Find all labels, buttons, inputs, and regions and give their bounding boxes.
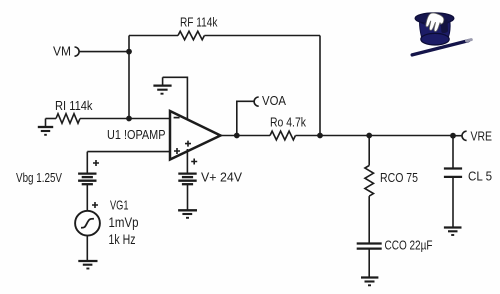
wire RCO branch upper (368, 136, 370, 166)
svg-text:RCO 75: RCO 75 (380, 170, 418, 185)
resistor RCO zigzag (365, 166, 374, 197)
resistor RI1 zigzag (56, 114, 80, 124)
op-amp U1 triangle (170, 111, 221, 160)
label VOA (262, 93, 286, 108)
svg-text:RF 114k: RF 114k (180, 14, 218, 29)
wire CCO to ground (368, 249, 370, 278)
battery V2 (V+) (178, 174, 196, 185)
logo magician hat (415, 13, 454, 45)
terminal VRE (462, 131, 467, 140)
ground G1 (at RI) (38, 119, 53, 135)
wire ground to op-amp top pin (163, 77, 188, 121)
ground G6 (VG1) (78, 261, 97, 269)
label U1 !OPAMP (107, 127, 166, 142)
svg-text:VRE: VRE (471, 129, 493, 144)
wire CL branch upper (452, 136, 454, 169)
wire left vertical (feedback to inverting node) (128, 36, 130, 119)
junction CL node (450, 133, 456, 139)
svg-text:Vbg 1.25V: Vbg 1.25V (16, 170, 62, 185)
wire feedback right vertical (319, 36, 321, 136)
logo wand (412, 40, 471, 55)
label 1mVp (109, 215, 139, 230)
source VG1 waveform glyph (81, 219, 94, 228)
wire V+ battery to ground (187, 184, 189, 210)
op-amp minus marker (174, 117, 180, 119)
svg-text:CL 5: CL 5 (468, 169, 492, 184)
ground G5 (V+) (178, 210, 197, 218)
label 1k Hz (109, 232, 136, 247)
ground G3 (CCO) (361, 278, 378, 286)
wire VM to node (79, 51, 129, 53)
wire non-inverting input (87, 151, 170, 153)
wire Vbg to VG1 (86, 184, 88, 211)
svg-text:Ro 4.7k: Ro 4.7k (270, 115, 306, 130)
wire RCO to CCO (368, 196, 370, 243)
wire non-inverting corner down to Vbg (86, 152, 88, 174)
wire ground to RI (46, 118, 57, 120)
label CL 5 (468, 169, 492, 184)
plus marker VG1 (92, 202, 98, 208)
label RF 114k (180, 14, 218, 29)
label Vbg 1.25V (16, 170, 62, 185)
junction RCO node (366, 133, 372, 139)
junction output node (234, 133, 240, 139)
svg-text:RI 114k: RI 114k (55, 98, 93, 113)
terminal VM (75, 47, 80, 56)
svg-text:V+ 24V: V+ 24V (201, 170, 242, 185)
svg-text:U1 !OPAMP: U1 !OPAMP (107, 127, 166, 142)
svg-text:CCO 22µF: CCO 22µF (385, 237, 433, 252)
wire op-amp lower supply pin (186, 149, 188, 174)
label VM (53, 44, 71, 59)
wire feedback top rail (129, 35, 320, 37)
svg-text:VM: VM (53, 44, 71, 59)
battery V1 (Vbg) (78, 174, 96, 185)
resistor RF1 zigzag (178, 31, 204, 40)
wire CL to ground (452, 177, 454, 228)
svg-text:VG1: VG1 (110, 198, 129, 213)
resistor Ro zigzag (270, 131, 295, 140)
capacitor CCO plates (357, 244, 382, 249)
wire op-amp output (221, 135, 271, 137)
junction VM node (126, 49, 132, 55)
wire VOA tap (237, 101, 254, 135)
svg-text:1k Hz: 1k Hz (109, 232, 136, 247)
logo glove (424, 12, 448, 34)
ground G4 (CL) (444, 228, 462, 236)
svg-text:VOA: VOA (262, 93, 286, 108)
label VG1 (110, 198, 129, 213)
svg-text:1mVp: 1mVp (109, 215, 139, 230)
wire VG1 to ground (86, 236, 88, 261)
label RCO 75 (380, 170, 418, 185)
label RI 114k (55, 98, 93, 113)
label VRE (471, 129, 493, 144)
label Ro 4.7k (270, 115, 306, 130)
op-amp plus marker (power pin) (185, 141, 191, 147)
plus marker Vbg battery (93, 160, 99, 166)
op-amp plus marker (non-inverting) (174, 148, 180, 154)
wire VRE stub (453, 135, 462, 137)
label V+ 24V (201, 170, 242, 185)
label CCO 22uF (385, 237, 433, 252)
terminal VOA (254, 97, 259, 106)
plus marker V+ battery (191, 159, 197, 165)
source VG1 circle (75, 211, 100, 236)
wire output rail to VRE (296, 135, 454, 137)
junction inverting node (126, 116, 132, 122)
junction feedback node (317, 133, 323, 139)
ground G2 (op-amp upper supply) (153, 77, 171, 93)
wire RI to op-amp inverting input (80, 118, 170, 120)
capacitor CL plates (444, 169, 462, 177)
